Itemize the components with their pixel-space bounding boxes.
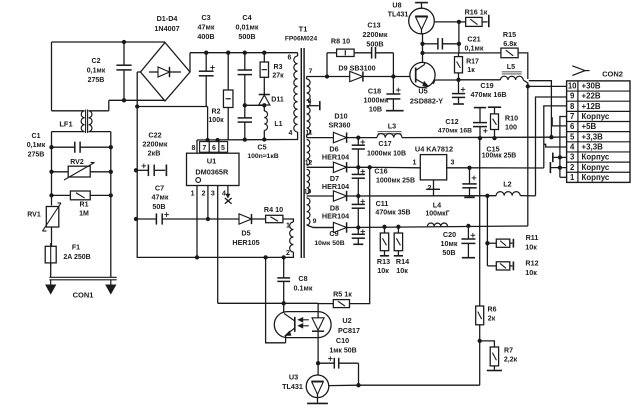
svg-text:1мк 50В: 1мк 50В <box>329 348 356 355</box>
svg-text:10В: 10В <box>369 105 382 114</box>
svg-text:2200мк: 2200мк <box>363 30 388 39</box>
svg-text:RV2: RV2 <box>70 159 84 166</box>
resistor R12 <box>487 265 496 267</box>
node C12 bottom <box>478 136 482 140</box>
wire D8 out / gnd rail <box>347 226 528 228</box>
svg-text:TL431: TL431 <box>388 10 409 19</box>
svg-text:U1: U1 <box>207 157 217 166</box>
svg-text:10к: 10к <box>396 266 408 275</box>
svg-text:0.1мк: 0.1мк <box>294 284 313 293</box>
node snubber mid left <box>262 103 266 107</box>
svg-text:1000мк: 1000мк <box>364 96 389 105</box>
node U5 collector <box>420 51 424 55</box>
wire row3 rail <box>358 195 496 197</box>
wire pin7 to D9 <box>327 76 350 78</box>
connector CON2 table <box>567 81 630 182</box>
svg-text:R5 1к: R5 1к <box>333 290 352 299</box>
svg-text:3: 3 <box>570 153 575 162</box>
wire D9 out <box>363 76 394 78</box>
svg-text:+22В: +22В <box>582 92 601 101</box>
svg-text:L1: L1 <box>274 121 282 128</box>
svg-text:C13: C13 <box>367 21 380 30</box>
U3 anode stub <box>317 398 319 403</box>
wire row3 stub <box>553 156 567 158</box>
resistor R15 <box>501 48 518 58</box>
svg-text:0,1мк: 0,1мк <box>465 44 484 53</box>
svg-text:SR360: SR360 <box>329 121 351 130</box>
svg-text:R8 10: R8 10 <box>331 37 350 46</box>
svg-text:275В: 275В <box>28 152 45 159</box>
wire row7 feeder <box>560 117 567 178</box>
wire mains left rail upper <box>51 132 53 206</box>
svg-text:27к: 27к <box>272 73 284 80</box>
svg-text:7: 7 <box>202 145 206 152</box>
svg-text:2: 2 <box>428 185 432 192</box>
svg-text:C4: C4 <box>242 13 251 22</box>
wire R6 riser lower <box>479 325 481 385</box>
svg-text:R6: R6 <box>488 307 497 314</box>
wire DC minus down rail <box>136 107 138 258</box>
capacitor C21 <box>457 42 461 46</box>
diode D9 SB3100 <box>350 71 363 81</box>
svg-text:7: 7 <box>309 68 313 75</box>
capacitor C17 <box>357 138 359 146</box>
op-amp U1 DM0365R body <box>187 153 240 185</box>
wire R8 branch risers <box>326 53 328 77</box>
node fb <box>316 361 320 365</box>
svg-text:6: 6 <box>570 122 575 131</box>
wire D6 out <box>347 166 370 168</box>
diode D7 HER104 <box>333 191 346 201</box>
svg-text:R16 1к: R16 1к <box>465 8 488 17</box>
svg-text:10мк 50В: 10мк 50В <box>314 240 344 247</box>
T1 pin7 lead <box>307 76 327 78</box>
svg-text:R4 10: R4 10 <box>264 205 283 214</box>
svg-text:10к: 10к <box>525 268 537 277</box>
node row1 <box>356 135 360 139</box>
diode D10 SR360 <box>333 132 346 142</box>
svg-text:L5: L5 <box>507 62 515 71</box>
svg-text:7: 7 <box>570 112 574 121</box>
wire DC minus from bridge left vertex <box>137 71 140 73</box>
svg-text:9: 9 <box>313 218 317 225</box>
svg-text:1к: 1к <box>467 67 475 74</box>
svg-text:CON2: CON2 <box>602 70 623 79</box>
wire row2 stub <box>550 167 566 169</box>
wire row1 stub <box>560 176 567 178</box>
wire primary gnd rail <box>137 256 290 258</box>
node U1 pin7 top <box>205 138 209 142</box>
capacitor C4 <box>243 51 247 55</box>
node row3 <box>356 194 360 198</box>
resistor R6 <box>476 306 484 325</box>
inductor L1 <box>263 105 265 111</box>
svg-text:U5: U5 <box>418 87 427 96</box>
node pin1-gnd <box>195 255 199 259</box>
wire DC plus top rail <box>190 52 298 54</box>
node L1 bottom <box>262 137 266 141</box>
aux winding T1 pins 1-2 <box>290 222 294 252</box>
svg-text:4: 4 <box>570 142 575 151</box>
node row4 <box>356 225 360 229</box>
svg-text:1: 1 <box>413 160 417 167</box>
svg-text:2SD882-Y: 2SD882-Y <box>410 97 443 106</box>
svg-text:10к: 10к <box>377 266 389 275</box>
svg-text:1: 1 <box>191 191 195 198</box>
node C8 bottom <box>282 301 286 305</box>
capacitor C13 <box>354 52 372 54</box>
capacitor C7 <box>134 217 138 221</box>
wire +30 gnd riser x527.8 <box>527 86 529 226</box>
svg-text:2: 2 <box>286 250 290 257</box>
svg-text:+5В: +5В <box>582 122 597 131</box>
svg-text:400В: 400В <box>197 32 214 41</box>
svg-text:C18: C18 <box>368 87 381 96</box>
node AC bottom / C2 bottom <box>122 98 126 102</box>
svg-text:1000мк 25В: 1000мк 25В <box>376 178 415 185</box>
wire D5 to R4 <box>252 218 266 220</box>
svg-text:HER105: HER105 <box>232 238 259 247</box>
svg-text:PC817: PC817 <box>338 326 360 335</box>
node row2 a <box>356 165 360 169</box>
T1 secondary winding section 7-8-11 <box>306 77 308 80</box>
wire base rail y53 <box>423 52 501 54</box>
svg-text:U8: U8 <box>392 1 401 10</box>
wire C10 right riser <box>358 363 360 385</box>
T1 secondary winding section 11-12 <box>307 140 310 166</box>
svg-text:8: 8 <box>191 145 195 152</box>
wire AC left riser <box>51 42 53 111</box>
node pin7-D9 <box>325 74 329 78</box>
wire U4 output <box>447 167 470 169</box>
svg-text:100: 100 <box>505 123 517 132</box>
wire emitter rail to L5 <box>459 79 501 81</box>
wire mains right rail <box>110 132 112 278</box>
svg-text:T1: T1 <box>299 25 308 34</box>
svg-text:+3,3В: +3,3В <box>582 132 604 141</box>
transistor U5 2SD882-Y <box>393 76 410 78</box>
svg-text:R1: R1 <box>80 202 89 209</box>
diode D8 HER104 <box>333 222 346 232</box>
svg-text:U3: U3 <box>289 373 298 382</box>
svg-text:R7: R7 <box>504 348 513 355</box>
T1 pin9 lead corner <box>307 225 334 228</box>
wire R6 riser upper <box>479 138 481 306</box>
svg-text:1M: 1M <box>79 211 89 218</box>
resistor R1 <box>70 191 90 200</box>
wire opto emitter return <box>266 257 286 342</box>
varistor RV2 <box>68 166 90 177</box>
U1 pin box 5 <box>219 142 228 153</box>
svg-text:C11: C11 <box>376 199 389 208</box>
svg-text:100мкГ: 100мкГ <box>425 211 449 218</box>
svg-text:0,1мк: 0,1мк <box>87 68 106 75</box>
svg-text:L2: L2 <box>503 180 511 189</box>
node row5 tie <box>549 135 553 139</box>
shunt regulator U8 TL431 <box>422 44 424 53</box>
U2 phototransistor <box>294 317 296 332</box>
svg-text:11: 11 <box>305 130 312 137</box>
wire aux pin2 to gnd rail <box>288 252 293 257</box>
svg-text:470мк 16В: 470мк 16В <box>470 90 506 99</box>
U2 LED <box>312 318 324 330</box>
wire U4 pin2 gnd <box>433 180 435 196</box>
connector fork symbol <box>572 66 585 76</box>
svg-text:C5: C5 <box>257 143 266 152</box>
bridge rectifier D1-D4 <box>141 43 191 102</box>
svg-text:8: 8 <box>308 98 312 105</box>
svg-text:LF1: LF1 <box>59 120 72 129</box>
svg-text:L3: L3 <box>388 122 396 131</box>
capacitor C8 <box>283 257 285 278</box>
capacitor C10 <box>318 362 334 364</box>
svg-text:500В: 500В <box>238 32 255 41</box>
resistor R3 <box>262 51 266 55</box>
svg-text:R3: R3 <box>274 64 283 71</box>
wire LF1 right-top lead to AC bottom rail <box>89 110 109 112</box>
wire R11 R12 riser <box>486 196 488 266</box>
fuse F1 <box>45 246 56 263</box>
wire R15 to +30 node <box>518 53 528 79</box>
svg-text:FP06M024: FP06M024 <box>285 36 318 43</box>
T1 pin8 tap <box>307 105 319 107</box>
capacitor C15 <box>469 168 471 184</box>
wire DC minus to U1 pins <box>207 107 209 141</box>
svg-text:U4 KA7812: U4 KA7812 <box>415 145 453 154</box>
capacitor C16 <box>357 167 359 174</box>
diode D11 <box>263 77 265 94</box>
T1 secondary winding section 12-10 <box>307 169 310 194</box>
U1 pin box 7 <box>200 142 210 153</box>
shunt regulator U3 TL431 <box>306 375 329 398</box>
wire row6 stub <box>552 117 566 126</box>
connector CON1 bar <box>49 276 116 278</box>
wire bottom fb rail <box>359 384 480 386</box>
svg-text:10: 10 <box>568 82 577 91</box>
svg-text:C8: C8 <box>298 274 307 283</box>
T1 secondary winding section 10-9 <box>307 198 310 225</box>
node DC minus corner <box>135 104 139 108</box>
node U8 ref <box>457 20 461 24</box>
diode D6 HER104 <box>333 162 346 172</box>
U2 light arrows <box>300 319 309 321</box>
svg-text:C20: C20 <box>443 230 456 239</box>
wire U1 pin1 lead <box>196 186 198 258</box>
wire primary return line <box>197 139 291 142</box>
svg-text:D1-D4: D1-D4 <box>157 14 178 23</box>
svg-text:10мк: 10мк <box>441 239 458 248</box>
svg-text:R17: R17 <box>466 59 479 66</box>
svg-text:C1: C1 <box>32 133 41 140</box>
resistor R2 <box>226 51 230 55</box>
CON1 left arrow <box>50 280 52 286</box>
svg-text:RV1: RV1 <box>27 212 41 219</box>
wire +12 line to riser <box>470 167 544 169</box>
LF1 core <box>85 110 87 134</box>
wire L2 rail to riser <box>520 195 535 197</box>
svg-text:C7: C7 <box>155 184 164 193</box>
U8 cathode stub to top <box>421 3 423 8</box>
svg-text:R10: R10 <box>505 114 518 123</box>
wire U1 pin2 lead <box>207 186 209 220</box>
wire DC minus horizontal to C3 bottom <box>137 106 207 108</box>
svg-text:D10: D10 <box>334 112 347 121</box>
svg-text:470мк 16В: 470мк 16В <box>438 128 472 135</box>
U1 pin box 6 <box>209 142 219 153</box>
inductor L2 <box>496 192 520 196</box>
resistor R5 <box>318 303 333 305</box>
svg-text:HER104: HER104 <box>322 182 349 191</box>
svg-text:L4: L4 <box>433 201 441 210</box>
svg-text:100n≈1кВ: 100n≈1кВ <box>247 153 278 160</box>
svg-text:8: 8 <box>570 102 575 111</box>
node AC top / C2 top <box>122 40 126 44</box>
transformer T1 core <box>300 48 302 258</box>
svg-text:6: 6 <box>288 55 292 62</box>
wire U8 ref lead <box>434 21 459 23</box>
svg-text:R12: R12 <box>525 259 538 268</box>
svg-text:D9 SB3100: D9 SB3100 <box>338 64 375 73</box>
wire LED cathode down <box>317 338 319 376</box>
node U4 out <box>467 166 471 170</box>
capacitor C2 <box>123 42 125 65</box>
svg-text:DM0365R: DM0365R <box>195 168 229 177</box>
wire row4 stub <box>544 144 567 147</box>
svg-text:275В: 275В <box>88 77 105 84</box>
wire LF1 right-bottom lead <box>89 131 111 133</box>
diode D5 HER105 <box>239 214 252 224</box>
CON1 right arrow <box>110 280 112 286</box>
resistor R8 <box>327 52 337 54</box>
svg-text:+3,3В: +3,3В <box>582 142 604 151</box>
capacitor C18 <box>392 77 394 95</box>
wire row3 lead <box>307 195 334 197</box>
svg-text:9: 9 <box>570 92 575 101</box>
svg-text:6.8к: 6.8к <box>503 39 517 48</box>
wire R16 node riser <box>458 22 460 53</box>
svg-text:HER104: HER104 <box>322 153 349 162</box>
svg-text:2к: 2к <box>488 316 496 323</box>
wire AC bottom rail <box>109 99 165 101</box>
svg-text:C16: C16 <box>374 167 387 176</box>
resistor R13 <box>382 225 386 229</box>
svg-text:C10: C10 <box>336 336 349 345</box>
capacitor C1 <box>74 142 76 153</box>
svg-text:47мк: 47мк <box>152 193 169 202</box>
svg-text:R14: R14 <box>396 257 409 266</box>
node +30 <box>526 84 530 88</box>
wire U1 pin3 lead <box>217 186 219 304</box>
resistor R16 <box>459 21 466 23</box>
resistor R10 <box>488 106 501 108</box>
wire U1 vcc line risers <box>196 140 198 153</box>
svg-text:HER104: HER104 <box>322 212 349 221</box>
capacitor C9 <box>357 228 359 235</box>
svg-text:Корпус: Корпус <box>582 173 610 182</box>
varistor RV1 <box>46 207 59 228</box>
wire AC top rail <box>52 41 166 43</box>
svg-text:2A 250В: 2A 250В <box>63 254 90 261</box>
wire feeder row9 riser <box>536 97 567 196</box>
wire C4-C5 mid link <box>245 104 264 106</box>
svg-text:4: 4 <box>222 191 226 198</box>
svg-text:4: 4 <box>289 130 293 137</box>
inductor L4 <box>428 223 448 226</box>
resistor R11 <box>487 242 496 244</box>
wire R4 to aux pin1 <box>283 219 294 222</box>
resistor R4 <box>266 215 283 222</box>
svg-text:C21: C21 <box>467 35 480 44</box>
svg-text:1000мк 10В: 1000мк 10В <box>367 151 406 158</box>
svg-text:500В: 500В <box>366 40 383 49</box>
wire R5 right riser to +5 rail <box>350 167 370 303</box>
svg-text:R13: R13 <box>377 257 390 266</box>
node R10 bottom <box>492 136 496 140</box>
node U1 pin6 top <box>215 138 219 142</box>
wire +30 corner feed <box>529 81 552 138</box>
svg-text:+12В: +12В <box>582 102 601 111</box>
svg-text:2: 2 <box>202 191 206 198</box>
node U3 ref <box>356 383 360 387</box>
svg-text:Корпус: Корпус <box>582 153 610 162</box>
svg-text:5: 5 <box>570 132 575 141</box>
svg-text:C9: C9 <box>329 229 338 238</box>
wire row1 lead <box>307 137 334 139</box>
capacitor C20 <box>466 224 470 228</box>
wire U5 collector riser <box>422 53 424 62</box>
node emitter riser <box>263 255 267 259</box>
wire LF1 left-bottom lead <box>52 131 85 133</box>
inductor L5 <box>502 71 522 73</box>
resistor R17 <box>458 53 460 57</box>
wire U3 ref rail <box>329 384 359 386</box>
wire L5 to +30 node <box>523 80 528 86</box>
svg-text:+30В: +30В <box>582 82 601 91</box>
svg-text:5: 5 <box>221 145 225 152</box>
svg-text:10к: 10к <box>525 243 537 252</box>
svg-text:C3: C3 <box>201 13 210 22</box>
node D9 out <box>391 74 395 78</box>
capacitor C19 <box>458 80 460 94</box>
wire DC plus riser from bridge right vertex <box>189 53 191 72</box>
svg-text:6: 6 <box>212 145 216 152</box>
svg-text:3: 3 <box>211 191 215 198</box>
svg-text:2кВ: 2кВ <box>148 149 161 158</box>
svg-text:2,2к: 2,2к <box>504 357 518 364</box>
wire pin3 line to opto <box>218 302 318 304</box>
wire row2 lead <box>307 166 334 168</box>
svg-text:D5: D5 <box>241 229 250 238</box>
capacitor C3 <box>204 51 208 55</box>
node L2 rail R11 tap <box>485 194 489 198</box>
wire LED anode riser <box>317 303 319 318</box>
svg-text:U2: U2 <box>342 316 351 325</box>
svg-text:CON1: CON1 <box>73 291 94 300</box>
wire left rail RV1 to F1 <box>51 227 53 246</box>
svg-text:C12: C12 <box>445 117 458 126</box>
node R11 tap <box>485 241 489 245</box>
node R6-R7 <box>478 339 482 343</box>
svg-text:470мк 35В: 470мк 35В <box>375 210 410 217</box>
inductor LF1 left winding <box>81 111 84 132</box>
wire +30 to CON2 pin10 <box>528 85 567 87</box>
node row2 b <box>368 165 372 169</box>
svg-text:R15: R15 <box>503 30 516 39</box>
wire LF1 left-top lead <box>52 110 85 112</box>
inductor LF1 right winding <box>89 111 92 132</box>
wire D10 out <box>347 137 359 139</box>
capacitor C22 <box>134 168 138 172</box>
